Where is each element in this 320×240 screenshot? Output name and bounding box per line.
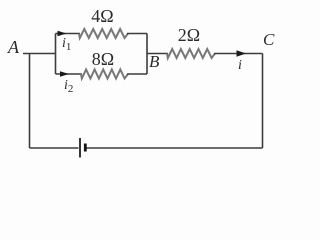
wire bottom right segment: [86, 147, 263, 149]
resistor 4Ω: [79, 29, 128, 38]
svg-text:A: A: [7, 37, 20, 57]
svg-text:4Ω: 4Ω: [91, 6, 113, 26]
svg-text:i: i: [238, 58, 242, 73]
wire bottom left segment: [30, 147, 79, 149]
current arrow i: [237, 50, 247, 57]
wire node B to resistor 2Ω: [147, 53, 168, 55]
wire right side vertical C down: [262, 54, 264, 149]
wire right branch merge vertical: [146, 34, 148, 75]
wire resistor 2Ω to node C: [214, 53, 263, 55]
svg-text:C: C: [263, 30, 275, 49]
svg-text:i1: i1: [62, 36, 71, 53]
wire bottom branch right segment: [127, 73, 147, 75]
battery positive plate (long): [79, 138, 81, 158]
wire bottom branch left segment: [56, 73, 83, 75]
current arrow i1: [58, 31, 67, 36]
wire top branch left segment: [56, 33, 81, 35]
svg-text:B: B: [149, 52, 160, 71]
svg-text:8Ω: 8Ω: [92, 49, 114, 69]
svg-text:2Ω: 2Ω: [178, 25, 200, 45]
battery negative plate (short thick): [84, 144, 87, 152]
current arrow i2: [60, 71, 69, 76]
resistor 8Ω: [81, 70, 128, 79]
svg-text:i2: i2: [64, 78, 73, 95]
wire top branch right segment: [127, 33, 147, 35]
wire left side vertical A down: [29, 54, 31, 149]
resistor 2Ω: [167, 49, 215, 58]
wire from node A to left junction: [23, 53, 56, 55]
wire left branch split vertical: [55, 34, 57, 75]
